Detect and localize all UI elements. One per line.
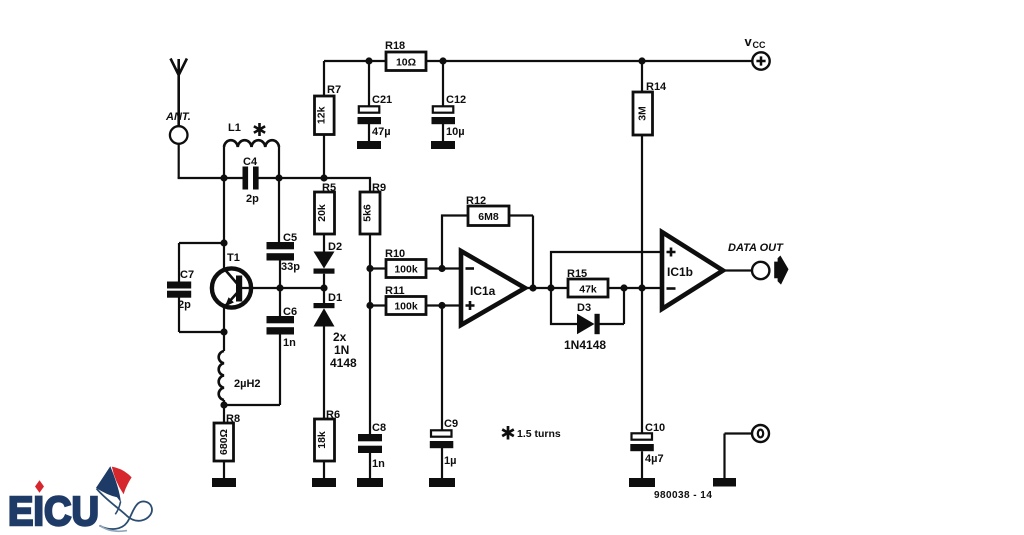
wire R7 column — [323, 61, 325, 178]
svg-text:4µ7: 4µ7 — [645, 453, 664, 465]
wire IC1a output row y=288 — [525, 287, 662, 289]
wire C5/C6 column — [279, 178, 280, 405]
wire IC1b output — [723, 269, 752, 271]
kite crease tail — [115, 502, 120, 515]
svg-text:100k: 100k — [394, 300, 418, 312]
node junction x=370 y=268.5 — [366, 265, 373, 272]
ground (0V) — [713, 478, 736, 487]
svg-text:12k: 12k — [316, 106, 328, 124]
capacitor C12 — [432, 61, 456, 141]
node junction x=280 y=288 — [276, 284, 283, 291]
node junction x=370 y=305.5 — [366, 302, 373, 309]
svg-text:R10: R10 — [385, 248, 405, 260]
wire R12 feedback loop — [442, 216, 533, 289]
capacitor C8 — [358, 434, 382, 453]
node junction x=443 y=61 — [439, 57, 446, 64]
wire transistor row y=288 — [242, 287, 324, 289]
svg-text:47µ: 47µ — [372, 126, 391, 138]
capacitor C7 — [167, 243, 224, 332]
junction dots row 178 — [220, 174, 227, 181]
node junction x=324 y=288 — [320, 284, 327, 291]
op-amp IC1b — [662, 232, 723, 309]
svg-text:R6: R6 — [326, 409, 340, 421]
kite navy panel — [96, 466, 121, 502]
ground (C9) — [429, 478, 455, 487]
antenna — [171, 59, 187, 127]
wire R14/C10 column — [641, 61, 643, 433]
svg-text:R5: R5 — [322, 182, 336, 194]
node junction x=533 y=288 — [529, 284, 536, 291]
resistor R6 — [315, 419, 335, 461]
svg-text:10µ: 10µ — [446, 126, 465, 138]
svg-text:100k: 100k — [394, 263, 418, 275]
svg-text:R12: R12 — [466, 195, 486, 207]
svg-text:IC1b: IC1b — [667, 265, 693, 279]
capacitor C5 — [267, 242, 295, 261]
node junction x=224 y=405 — [220, 401, 227, 408]
ground (R6) — [312, 478, 336, 487]
svg-text:2x: 2x — [333, 330, 347, 344]
ground (C10) — [629, 478, 655, 487]
svg-text:2µH2: 2µH2 — [234, 378, 261, 390]
red diamond dot of i — [35, 480, 44, 493]
node junction x=224 y=243 — [220, 239, 227, 246]
svg-text:5k6: 5k6 — [362, 204, 374, 222]
svg-text:C5: C5 — [283, 232, 297, 244]
terminal 0V — [752, 425, 769, 442]
wire main row y=178 — [178, 178, 371, 192]
wire R9/C8 column — [369, 234, 371, 478]
svg-text:33p: 33p — [281, 261, 300, 273]
svg-text:D3: D3 — [577, 302, 591, 314]
capacitor C4 — [243, 167, 259, 190]
svg-text:6M8: 6M8 — [478, 211, 499, 223]
capacitor C6 — [267, 316, 295, 335]
svg-text:1N4148: 1N4148 — [564, 338, 606, 352]
label Vcc — [745, 34, 766, 50]
inductor L1 — [224, 140, 279, 178]
svg-text:R9: R9 — [372, 182, 386, 194]
svg-text:CC: CC — [753, 40, 766, 50]
node junction x=442 y=268.5 — [438, 265, 445, 272]
ground (C21) — [357, 141, 381, 149]
node junction x=642 y=288 — [638, 284, 645, 291]
terminal Vcc — [752, 52, 769, 69]
wire R5 to D2 — [323, 234, 325, 252]
node junction x=369 y=61 — [365, 57, 372, 64]
resistor R8 — [214, 423, 234, 461]
terminal DATA OUT — [752, 262, 769, 279]
svg-text:C10: C10 — [645, 422, 665, 434]
wire D3 loop — [551, 288, 624, 324]
node junction x=642 y=61 — [638, 57, 645, 64]
svg-text:C4: C4 — [243, 156, 258, 168]
wire C9 column — [441, 306, 443, 479]
svg-text:v: v — [745, 34, 753, 49]
svg-text:R11: R11 — [385, 285, 405, 297]
resistor R10 — [386, 260, 426, 278]
resistor R7 — [315, 96, 335, 135]
svg-text:18k: 18k — [316, 431, 328, 449]
resistor R14 — [633, 92, 653, 135]
node junction x=224 y=332 — [220, 328, 227, 335]
svg-text:DATA OUT: DATA OUT — [728, 242, 784, 254]
wire ANT to main row — [178, 144, 180, 178]
wire top bus y=61 — [324, 60, 752, 62]
diode D2 — [314, 252, 335, 289]
svg-text:R18: R18 — [385, 40, 405, 52]
ground (C12) — [431, 141, 455, 149]
svg-text:R14: R14 — [646, 81, 667, 93]
resistor R5 — [315, 192, 335, 234]
svg-text:3M: 3M — [637, 106, 649, 121]
svg-text:D1: D1 — [328, 292, 342, 304]
svg-text:C6: C6 — [283, 306, 297, 318]
svg-text:C7: C7 — [180, 269, 194, 281]
svg-text:EICU: EICU — [8, 488, 99, 534]
ground (C8) — [357, 478, 383, 487]
svg-text:1µ: 1µ — [444, 455, 456, 467]
kite red panel — [112, 467, 132, 495]
asterisk (1.5 turns note) — [502, 426, 514, 440]
svg-text:D2: D2 — [328, 241, 342, 253]
svg-text:680Ω: 680Ω — [218, 429, 230, 455]
svg-text:R7: R7 — [327, 84, 341, 96]
svg-text:1.5 turns: 1.5 turns — [517, 428, 561, 440]
svg-text:C12: C12 — [446, 94, 466, 106]
label 2x 1N 4148 — [330, 330, 357, 370]
terminal ANT — [170, 126, 188, 144]
svg-text:R8: R8 — [226, 413, 240, 425]
wire 0V to ground — [725, 434, 753, 479]
resistor R12 — [468, 206, 509, 226]
output arrow — [774, 256, 788, 285]
tail bottom light arc — [100, 526, 127, 532]
diode D1 — [314, 288, 335, 419]
svg-text:1n: 1n — [372, 458, 385, 470]
svg-text:IC1a: IC1a — [470, 284, 496, 298]
capacitor C9 — [430, 430, 454, 448]
resistor R15 — [568, 279, 608, 297]
kite tail swirl — [97, 489, 152, 529]
capacitor C21 — [358, 61, 382, 141]
resistor R9 — [360, 192, 380, 234]
svg-text:T1: T1 — [227, 252, 240, 264]
wire R6 to ground — [323, 461, 325, 478]
wire bypass to IC1b plus input — [551, 252, 662, 288]
resistor R18 — [386, 52, 426, 71]
svg-text:10Ω: 10Ω — [396, 56, 416, 68]
ground (R8) — [212, 478, 236, 487]
svg-text:20k: 20k — [316, 204, 328, 222]
wire column x=224 (base/collector column) — [223, 178, 225, 478]
inductor L2 2uH2 — [219, 351, 224, 400]
svg-text:C8: C8 — [372, 422, 386, 434]
svg-text:4148: 4148 — [330, 356, 357, 370]
svg-text:R15: R15 — [567, 268, 587, 280]
capacitor C10 — [630, 433, 654, 478]
svg-text:C9: C9 — [444, 418, 458, 430]
node junction x=442 y=305.5 — [438, 302, 445, 309]
svg-text:1n: 1n — [283, 337, 296, 349]
op-amp IC1a — [461, 251, 525, 325]
wire row y=405 — [224, 404, 280, 406]
asterisk (L1 winding note) — [254, 123, 265, 136]
diode D3 — [577, 314, 600, 334]
svg-text:980038 - 14: 980038 - 14 — [654, 490, 712, 501]
svg-text:1N: 1N — [334, 343, 349, 357]
svg-text:C21: C21 — [372, 94, 392, 106]
svg-text:L1: L1 — [228, 122, 241, 134]
node junction x=551 y=288 — [547, 284, 554, 291]
svg-text:2p: 2p — [178, 299, 191, 311]
wire R10 input row — [370, 267, 461, 269]
resistor R11 — [386, 297, 426, 315]
svg-text:47k: 47k — [579, 283, 597, 295]
node junction x=624 y=288 — [620, 284, 627, 291]
transistor T1 — [212, 268, 251, 307]
svg-text:2p: 2p — [246, 193, 259, 205]
svg-text:ANT.: ANT. — [165, 111, 191, 123]
wire R11 input row — [370, 304, 461, 306]
